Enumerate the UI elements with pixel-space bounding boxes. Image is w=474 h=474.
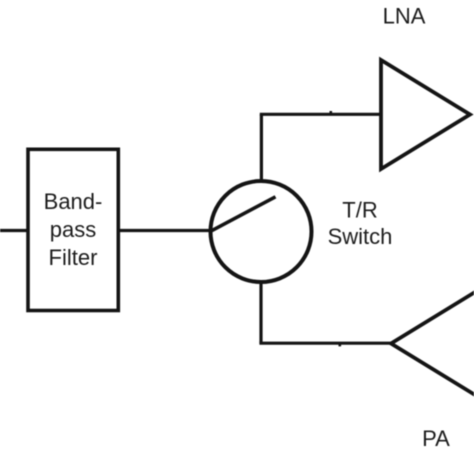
PA amplifier triangle (apex left, right edge off-canvas) (391, 289, 474, 398)
band-pass filter box (28, 149, 118, 310)
svg-text:PA: PA (422, 426, 450, 451)
wire switch to LNA vertical (260, 114, 263, 180)
junction tick on LNA wire (330, 111, 333, 113)
wire switch to PA vertical (259, 284, 262, 344)
band-pass filter label (44, 189, 103, 270)
LNA amplifier triangle (381, 60, 470, 169)
T/R switch label (328, 198, 393, 249)
wire switch to LNA horizontal (260, 113, 381, 116)
svg-text:pass: pass (50, 217, 96, 242)
wire input stub to band-pass filter (0, 229, 28, 232)
svg-text:T/R: T/R (342, 198, 377, 223)
svg-text:Filter: Filter (49, 245, 98, 270)
svg-text:LNA: LNA (383, 4, 426, 29)
wire switch to PA horizontal (259, 342, 391, 345)
switch arm (211, 197, 276, 232)
wire filter to T/R switch (118, 229, 210, 232)
junction tick on PA wire (339, 344, 342, 346)
svg-text:Band-: Band- (44, 189, 103, 214)
T/R switch circle SW1 (211, 181, 312, 282)
svg-text:Switch: Switch (328, 224, 393, 249)
